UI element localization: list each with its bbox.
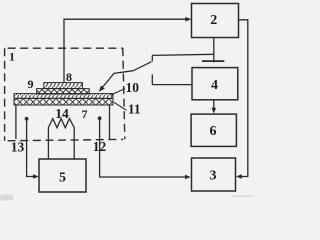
svg-text:11: 11: [128, 101, 141, 116]
node dot 13: [25, 117, 29, 121]
box 4: [192, 68, 238, 100]
box 3: [192, 158, 236, 191]
scan smudge bottom-right: [232, 196, 253, 198]
box 2: [192, 4, 239, 38]
svg-text:1: 1: [9, 50, 15, 64]
contact bar: [202, 60, 224, 62]
svg-text:8: 8: [66, 70, 72, 84]
pointer to layer 10: [111, 89, 126, 96]
substrate box 7 (sides): [16, 105, 110, 140]
wire 12 to box 3: [100, 119, 187, 178]
svg-text:3: 3: [210, 169, 217, 184]
switch bottom throw to box 4: [152, 74, 192, 84]
heater 14 zigzag: [48, 119, 74, 159]
svg-text:9: 9: [28, 77, 34, 91]
pointer to layer 11: [114, 102, 127, 110]
svg-text:6: 6: [210, 124, 217, 139]
electrode 9: middle cross-hatched box: [37, 89, 90, 94]
svg-text:5: 5: [59, 170, 66, 185]
box 5: [39, 159, 86, 192]
svg-text:4: 4: [211, 78, 218, 93]
svg-text:12: 12: [93, 139, 107, 154]
svg-text:14: 14: [55, 106, 69, 121]
svg-text:10: 10: [126, 80, 140, 95]
scan smudge bottom-left: [0, 195, 13, 201]
box 6: [191, 114, 236, 146]
layer 11: wide cross-hatched layer: [14, 98, 113, 105]
electrode 8: top diagonal-hatched box: [44, 83, 83, 89]
node dot 12: [98, 116, 102, 120]
switch wire to layer 10 with arrow: [102, 62, 152, 89]
wire box2 down to contact bar: [213, 38, 215, 63]
wire 13 to box 5: [27, 119, 36, 177]
svg-text:13: 13: [11, 139, 25, 154]
arrow box4 to box6: [213, 100, 215, 110]
wire box2 to box3 (right side): [239, 20, 248, 177]
layer 10: wide diagonal-hatched layer: [14, 94, 113, 99]
svg-text:7: 7: [82, 107, 88, 121]
wire from electrode 8 to box 2: [64, 19, 188, 82]
svg-text:2: 2: [210, 13, 217, 28]
dashed enclosure box 1: [5, 47, 124, 49]
switch top throw: [152, 54, 214, 61]
